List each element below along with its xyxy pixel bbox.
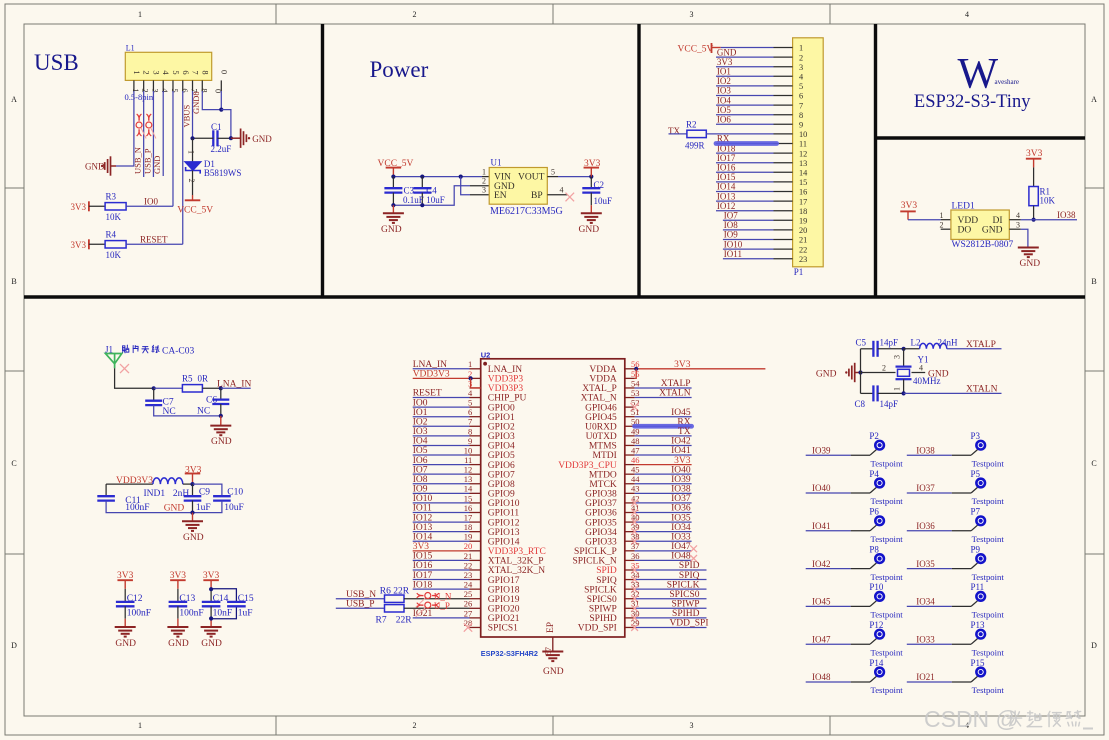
wire U2 pin 19 xyxy=(413,540,470,542)
wire U2 pin 10 xyxy=(413,454,470,456)
no-connect X at U2 pin 38 lead xyxy=(631,538,638,545)
svg-text:4: 4 xyxy=(560,186,564,195)
svg-text:6: 6 xyxy=(181,70,191,74)
svg-text:1uF: 1uF xyxy=(196,503,211,513)
antenna J1 symbol xyxy=(105,354,121,364)
power bar 3V3 at C12 xyxy=(117,579,133,581)
svg-text:2: 2 xyxy=(142,70,152,74)
svg-text:EN: EN xyxy=(494,191,507,201)
left ruler divider y371 xyxy=(5,370,24,372)
svg-text:GPIO11: GPIO11 xyxy=(488,509,520,519)
U2 left pin 21 lead xyxy=(470,559,481,561)
svg-text:VDD3P3: VDD3P3 xyxy=(488,384,524,394)
U2 right pin 50 lead xyxy=(625,425,635,427)
wire U2 pin 4 xyxy=(413,397,470,399)
svg-text:IO17: IO17 xyxy=(717,153,736,163)
wire U2 pin 41 xyxy=(635,512,692,514)
inductor L2 left lead xyxy=(904,348,920,350)
wire P1 pin 18 xyxy=(716,210,774,212)
capacitor C8 xyxy=(872,385,874,401)
svg-text:SPIWP: SPIWP xyxy=(589,605,617,615)
U2 right pin 30 lead xyxy=(625,617,635,619)
svg-text:IO11: IO11 xyxy=(413,504,432,514)
svg-text:GPIO34: GPIO34 xyxy=(585,528,617,538)
svg-text:LED1: LED1 xyxy=(952,201,975,211)
svg-text:48: 48 xyxy=(631,436,640,446)
U2 left pin 23 lead xyxy=(470,579,481,581)
U2 left pin 10 lead xyxy=(470,454,481,456)
svg-text:MTDO: MTDO xyxy=(589,470,617,480)
svg-text:10: 10 xyxy=(464,445,473,455)
svg-text:4: 4 xyxy=(919,364,923,373)
svg-text:36: 36 xyxy=(631,551,640,561)
highlighted RX wire at P1 xyxy=(716,141,777,146)
svg-text:0R: 0R xyxy=(198,374,209,384)
svg-text:IO2: IO2 xyxy=(413,417,428,427)
L1 pin 5 stub xyxy=(172,80,174,91)
inductor L2 xyxy=(920,343,947,348)
svg-text:GPIO5: GPIO5 xyxy=(488,451,515,461)
differential pair marker USB_N xyxy=(136,114,142,136)
testpoint P7 pad xyxy=(975,515,986,526)
svg-text:CA-C03: CA-C03 xyxy=(162,347,194,357)
svg-text:499R: 499R xyxy=(685,140,705,150)
svg-text:IO14: IO14 xyxy=(717,182,736,192)
no-connect X at antenna xyxy=(120,364,129,373)
power stub 3V3 at LED xyxy=(907,211,909,219)
wire P1 pin 15 xyxy=(716,181,774,183)
svg-text:4: 4 xyxy=(161,70,171,75)
U2 left pin 17 lead xyxy=(470,521,481,523)
no-connect X at U2 pin 34 lead xyxy=(631,576,638,583)
U2 left pin 24 lead xyxy=(470,588,481,590)
differential pair marker USB_P xyxy=(146,114,152,136)
svg-text:10nF: 10nF xyxy=(213,609,233,619)
svg-text:IO0: IO0 xyxy=(413,398,428,408)
svg-text:IO45: IO45 xyxy=(671,408,691,418)
testpoint P4 pad xyxy=(874,477,885,488)
svg-text:IO14: IO14 xyxy=(413,532,433,542)
svg-text:45: 45 xyxy=(631,465,640,475)
resistor R1 xyxy=(1029,187,1038,206)
no-connect X at U2 pin 41 lead xyxy=(631,509,638,516)
wire U2 pin 14 xyxy=(413,492,470,494)
svg-text:1: 1 xyxy=(940,211,944,220)
svg-text:8: 8 xyxy=(799,111,803,120)
svg-text:1: 1 xyxy=(468,359,472,369)
svg-text:Testpoint: Testpoint xyxy=(972,572,1005,582)
power flag 3V3 at R3 xyxy=(88,201,90,211)
antenna description tie pian tian xian CA-C03 xyxy=(122,345,129,353)
svg-text:IO36: IO36 xyxy=(916,521,935,531)
svg-text:IO40: IO40 xyxy=(812,483,831,493)
ground symbol filter xyxy=(182,521,203,531)
wire P1 pin 23 xyxy=(723,258,774,260)
node filter top junction xyxy=(190,482,194,486)
U2 left pin 7 lead xyxy=(470,425,481,427)
svg-text:GND: GND xyxy=(717,47,737,57)
U1 pin1 lead xyxy=(482,176,489,178)
svg-text:USB: USB xyxy=(34,50,79,75)
svg-text:SPID: SPID xyxy=(596,566,617,576)
power bar VCC_5V xyxy=(185,199,201,201)
svg-text:1uF: 1uF xyxy=(238,609,253,619)
no-connect X at U2 pin 42 lead xyxy=(631,500,638,507)
L1 pin 1 stub xyxy=(133,80,135,91)
svg-text:IO16: IO16 xyxy=(717,163,736,173)
svg-text:14pF: 14pF xyxy=(880,399,899,409)
svg-text:GPIO33: GPIO33 xyxy=(585,537,617,547)
svg-text:Testpoint: Testpoint xyxy=(871,610,904,620)
svg-text:Testpoint: Testpoint xyxy=(972,647,1005,657)
U2 right pin 55 lead xyxy=(625,377,635,379)
wire U2 pin 42 xyxy=(635,502,692,504)
wire L1 pin4 GND stub xyxy=(162,91,164,176)
svg-text:XTALN: XTALN xyxy=(659,389,691,399)
wire U2 pin 32 xyxy=(635,598,707,600)
svg-text:25: 25 xyxy=(464,589,473,599)
svg-text:11: 11 xyxy=(799,140,807,149)
svg-text:SPIQ: SPIQ xyxy=(596,576,617,586)
svg-text:13: 13 xyxy=(799,159,807,168)
svg-text:9: 9 xyxy=(468,436,472,446)
U2 left pin 4 lead xyxy=(470,397,481,399)
U2 left pin 27 lead xyxy=(470,617,481,619)
svg-text:U2: U2 xyxy=(481,351,491,360)
U2 left pin 19 lead xyxy=(470,540,481,542)
wire top rail to C10 xyxy=(193,484,222,496)
testpoint P14 pad xyxy=(874,666,885,677)
ground symbol at U2 EP xyxy=(542,652,563,662)
node antenna C7 junction xyxy=(152,386,156,390)
svg-text:IO6: IO6 xyxy=(413,456,428,466)
C4 bottom lead xyxy=(421,193,423,206)
svg-text:7: 7 xyxy=(191,70,201,74)
node VCC rail at C3 xyxy=(391,175,395,179)
svg-text:IO39: IO39 xyxy=(671,475,691,485)
wire U2 pin 27 xyxy=(413,617,470,619)
R3 left lead xyxy=(89,205,105,207)
node crystal gnd rail junction xyxy=(858,370,862,374)
svg-text:5: 5 xyxy=(170,88,180,92)
svg-text:C: C xyxy=(11,459,16,468)
ground symbol at C14 xyxy=(201,627,222,637)
svg-text:VCC_5V: VCC_5V xyxy=(177,206,213,216)
capacitor C15 branch wires xyxy=(211,589,236,602)
svg-text:IO41: IO41 xyxy=(671,446,691,456)
wire VCC_5V rail to U1 VIN xyxy=(393,176,482,178)
mcu U2 body xyxy=(481,359,625,637)
svg-text:L1: L1 xyxy=(126,44,135,53)
svg-text:2: 2 xyxy=(882,364,886,373)
wire P1 pin 9 xyxy=(716,123,774,125)
svg-text:3V3: 3V3 xyxy=(1026,149,1043,159)
svg-text:GPIO36: GPIO36 xyxy=(585,509,617,519)
bottom ruler divider x553 xyxy=(552,716,554,735)
svg-text:15: 15 xyxy=(464,493,473,503)
capacitor C15 xyxy=(227,601,246,603)
svg-text:3V3: 3V3 xyxy=(71,240,87,250)
svg-text:LNA_IN: LNA_IN xyxy=(488,365,522,375)
wire C8 to crystal bottom node xyxy=(878,392,904,394)
wire U2 pin 9 xyxy=(413,444,470,446)
svg-text:VDD: VDD xyxy=(958,216,979,226)
wire P1 pin 2 xyxy=(716,56,774,58)
wire U2 pin 45 xyxy=(635,473,692,475)
L1 pin 0 stub xyxy=(220,80,222,91)
wire C7 bottom to C6 bottom xyxy=(154,405,221,416)
svg-text:3V3: 3V3 xyxy=(674,360,691,370)
svg-text:ESP32-S3-Tiny: ESP32-S3-Tiny xyxy=(914,92,1031,112)
wire R1 to IO38 node xyxy=(1033,206,1035,220)
capacitor C14 xyxy=(202,601,221,603)
svg-text:IO1: IO1 xyxy=(717,67,731,77)
svg-text:BP: BP xyxy=(531,191,543,201)
svg-text:C6: C6 xyxy=(206,395,217,405)
capacitor C9 top lead xyxy=(192,484,194,496)
svg-text:R5: R5 xyxy=(182,374,193,384)
svg-text:TX: TX xyxy=(668,126,680,136)
svg-text:GPIO12: GPIO12 xyxy=(488,518,520,528)
svg-text:10uF: 10uF xyxy=(224,503,244,513)
U2 right pin 37 lead xyxy=(625,550,635,552)
wire 3V3 to R1 xyxy=(1033,167,1035,186)
svg-text:2: 2 xyxy=(413,10,417,19)
svg-text:3: 3 xyxy=(151,70,161,74)
svg-text:GPIO17: GPIO17 xyxy=(488,576,520,586)
svg-text:IO42: IO42 xyxy=(671,437,691,447)
svg-text:D: D xyxy=(11,641,17,650)
wire IO47 to testpoint P12 xyxy=(806,643,851,645)
power stub 3V3 power section xyxy=(590,168,592,177)
wire U2 pin 8 xyxy=(413,435,470,437)
svg-text:IO36: IO36 xyxy=(671,504,691,514)
svg-text:17: 17 xyxy=(799,197,807,206)
wire LED GND down xyxy=(1021,229,1028,247)
U2 left pin 9 lead xyxy=(470,444,481,446)
svg-text:SPIHD: SPIHD xyxy=(589,614,617,624)
svg-text:GND: GND xyxy=(543,667,564,677)
svg-text:IO37: IO37 xyxy=(671,494,691,504)
testpoint P5 diagonal lead xyxy=(971,487,977,493)
svg-text:XTAL_P: XTAL_P xyxy=(582,384,617,394)
wire USB_N to R6 xyxy=(336,598,385,600)
node filter bottom junction xyxy=(190,510,194,514)
svg-text:IO35: IO35 xyxy=(671,513,691,523)
svg-text:C4: C4 xyxy=(426,186,437,196)
wire IO33 to testpoint P13 xyxy=(907,643,952,645)
svg-text:10K: 10K xyxy=(1040,196,1056,206)
U2 left pin 28 lead xyxy=(470,626,481,628)
svg-text:3V3: 3V3 xyxy=(674,456,691,466)
svg-text:XTALP: XTALP xyxy=(966,340,996,350)
svg-text:P1: P1 xyxy=(794,267,804,277)
svg-text:10K: 10K xyxy=(106,212,122,222)
svg-text:IO3: IO3 xyxy=(717,86,731,96)
svg-text:B: B xyxy=(11,277,16,286)
wire P1 pin 1 xyxy=(721,47,774,49)
svg-text:7: 7 xyxy=(468,417,472,427)
testpoint P13 pad xyxy=(975,629,986,640)
svg-text:12: 12 xyxy=(464,465,473,475)
svg-text:IO5: IO5 xyxy=(413,446,428,456)
wire P1 pin 12 xyxy=(716,152,774,154)
svg-text:MTCK: MTCK xyxy=(589,480,617,490)
wire U2 VDDA to 3V3 xyxy=(635,368,766,370)
wire TX to R2 xyxy=(669,133,687,135)
svg-text:P13: P13 xyxy=(971,620,986,630)
wire U2 pin 50 xyxy=(635,425,692,427)
svg-text:IO38: IO38 xyxy=(916,445,935,455)
svg-text:2: 2 xyxy=(940,221,944,230)
svg-text:GPIO2: GPIO2 xyxy=(488,422,515,432)
svg-text:RESET: RESET xyxy=(413,389,442,399)
wire U2 pin 29 xyxy=(635,626,707,628)
resistor R4 xyxy=(105,241,126,248)
svg-text:P12: P12 xyxy=(869,620,883,630)
top ruler divider x276 xyxy=(275,4,277,24)
differential pair marker U_P xyxy=(417,602,439,608)
right ruler divider y371 xyxy=(1085,370,1104,372)
svg-text:IO38: IO38 xyxy=(671,485,691,495)
C3 bottom lead xyxy=(392,193,394,206)
wire U2 pin 20 xyxy=(413,550,470,552)
wire C14 to ground xyxy=(210,606,212,618)
U2 right pin 52 lead xyxy=(625,406,635,408)
D1 pin2 lead xyxy=(192,171,194,196)
svg-text:SPIWP: SPIWP xyxy=(672,600,700,610)
svg-text:SPICS1: SPICS1 xyxy=(488,624,518,634)
svg-text:L2: L2 xyxy=(911,337,921,347)
wire L1 pin6 to RESET net xyxy=(182,91,184,244)
svg-text:LNA_IN: LNA_IN xyxy=(217,379,251,389)
svg-text:GPIO20: GPIO20 xyxy=(488,605,520,615)
svg-text:IO33: IO33 xyxy=(671,532,691,542)
diode D1 pin1 lead xyxy=(192,138,194,161)
svg-text:0.5-8pin: 0.5-8pin xyxy=(125,92,154,102)
U2 left pin 3 lead xyxy=(470,387,481,389)
capacitor C3 top lead xyxy=(392,177,394,189)
wire IO39 to testpoint P2 xyxy=(806,454,851,456)
testpoint P15 pad xyxy=(975,666,986,677)
svg-text:GPIO45: GPIO45 xyxy=(585,413,617,423)
L1 pin 4 stub xyxy=(162,80,164,91)
differential pair marker U_N xyxy=(417,593,439,599)
wire U2 pin 46 to 3V3 xyxy=(635,464,692,466)
svg-text:21: 21 xyxy=(464,551,473,561)
resistor R7 xyxy=(385,605,405,612)
svg-text:15: 15 xyxy=(799,178,807,187)
LED1 pin3 lead xyxy=(1009,228,1021,230)
svg-text:VDD3P3: VDD3P3 xyxy=(488,375,524,385)
wire P1 pin 19 xyxy=(723,219,774,221)
svg-text:U_N: U_N xyxy=(434,591,452,601)
svg-text:4: 4 xyxy=(965,10,969,19)
wire U2 pin 5 xyxy=(413,406,470,408)
svg-text:IO48: IO48 xyxy=(671,552,691,562)
svg-text:IO13: IO13 xyxy=(413,523,433,533)
svg-text:GND: GND xyxy=(252,134,272,144)
svg-text:18: 18 xyxy=(464,522,473,532)
svg-text:5: 5 xyxy=(171,70,181,74)
thick section divider horizontal y138 title block xyxy=(876,136,1086,139)
svg-text:ME6217C33M5G: ME6217C33M5G xyxy=(490,206,563,217)
svg-text:P15: P15 xyxy=(971,658,986,668)
U2 right pin 32 lead xyxy=(625,598,635,600)
svg-text:55: 55 xyxy=(631,369,640,379)
wire L1 pin2 USB_N stub xyxy=(143,91,145,177)
U2 right pin 39 lead xyxy=(625,531,635,533)
U2 right pin 49 lead xyxy=(625,435,635,437)
node VDDA junction xyxy=(634,367,638,371)
svg-text:100nF: 100nF xyxy=(127,609,151,619)
svg-text:R4: R4 xyxy=(106,230,117,240)
svg-text:2nH: 2nH xyxy=(173,489,190,499)
wire U2 pin 33 xyxy=(635,588,707,590)
capacitor C10 xyxy=(213,495,231,497)
wire L1 pin8 to node xyxy=(202,91,221,110)
wire U2 pin 38 xyxy=(635,540,692,542)
svg-text:C1: C1 xyxy=(211,122,222,132)
capacitor C1 xyxy=(212,130,214,146)
svg-text:Testpoint: Testpoint xyxy=(871,647,904,657)
svg-text:100nF: 100nF xyxy=(125,503,149,513)
svg-text:100nF: 100nF xyxy=(179,609,203,619)
node C6 bottom junction xyxy=(219,414,223,418)
svg-text:53: 53 xyxy=(631,388,640,398)
svg-text:Testpoint: Testpoint xyxy=(972,610,1005,620)
wire P1 pin 5 xyxy=(716,85,774,87)
no-connect X at U2 pin 33 lead xyxy=(631,586,638,593)
svg-text:IO7: IO7 xyxy=(724,211,738,221)
svg-text:1: 1 xyxy=(187,150,196,154)
svg-text:4: 4 xyxy=(468,388,473,398)
svg-text:P9: P9 xyxy=(971,544,981,554)
svg-text:GPIO0: GPIO0 xyxy=(488,403,515,413)
svg-text:R7: R7 xyxy=(376,615,387,625)
no-connect X at U2 pin 39 lead xyxy=(631,528,638,535)
U2 right pin 46 lead xyxy=(625,464,635,466)
top ruler divider x553 xyxy=(552,4,554,24)
svg-text:GPIO19: GPIO19 xyxy=(488,595,520,605)
U2 right pin 43 lead xyxy=(625,492,635,494)
svg-text:37: 37 xyxy=(631,541,640,551)
wire R5 to LNA_IN node xyxy=(202,387,220,389)
crystal left rail vertical xyxy=(860,349,862,373)
svg-text:43: 43 xyxy=(631,484,640,494)
wire U2 pin 1 xyxy=(413,368,470,370)
thick section divider vertical x639 xyxy=(637,24,640,299)
power bar 3V3 power section xyxy=(584,167,600,169)
svg-text:U_P: U_P xyxy=(434,601,450,611)
svg-text:12: 12 xyxy=(799,149,807,158)
svg-text:GPIO37: GPIO37 xyxy=(585,499,617,509)
U2 left pin 5 lead xyxy=(470,406,481,408)
node crystal top junction xyxy=(902,347,906,351)
svg-text:W: W xyxy=(958,51,999,98)
svg-text:0: 0 xyxy=(214,89,224,93)
svg-text:SPID: SPID xyxy=(679,561,700,571)
svg-text:IND1: IND1 xyxy=(144,489,166,499)
U2 left pin 8 lead xyxy=(470,435,481,437)
svg-text:IO17: IO17 xyxy=(413,571,433,581)
node VDD3V3 junction xyxy=(469,376,473,380)
capacitor C11 left rail xyxy=(105,484,107,496)
wire IO40 to testpoint P4 xyxy=(806,492,851,494)
U2 left pin 15 lead xyxy=(470,502,481,504)
crystal Y1 xyxy=(896,366,912,368)
wire IO38 to testpoint P3 xyxy=(907,454,952,456)
